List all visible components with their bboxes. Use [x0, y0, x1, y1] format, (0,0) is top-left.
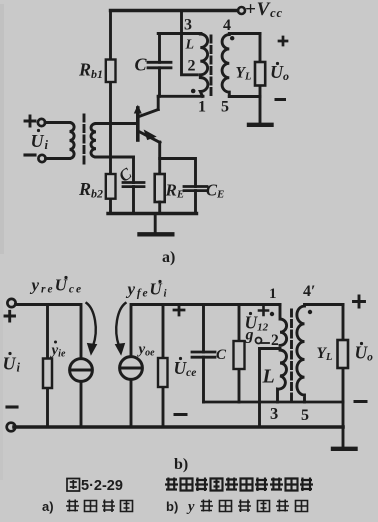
wire input bottom [46, 157, 70, 160]
inductor b-secondary [297, 306, 305, 402]
ground a-right [249, 123, 272, 127]
terminal b input bottom [7, 423, 16, 432]
capacitor CE [184, 187, 207, 191]
node U12 + [259, 306, 268, 315]
resistor Rb2 [106, 174, 116, 199]
node +Vcc label [245, 0, 283, 20]
inductor L b-primary lower [278, 350, 287, 402]
svg-text:5: 5 [221, 99, 229, 116]
load YL [255, 62, 265, 86]
node b input - [7, 405, 17, 408]
node 4 label [223, 17, 231, 34]
caption line1 [81, 478, 123, 494]
core b transformer [290, 310, 293, 400]
node input + [25, 116, 35, 126]
node b output + [354, 296, 365, 307]
source y_re U_ce [70, 359, 93, 382]
admittance y_ie branch [46, 305, 49, 428]
node 3 label [270, 404, 278, 423]
wire to ground a-right [259, 97, 262, 124]
node 5 label [301, 407, 309, 424]
node b) label [174, 456, 188, 473]
node Uo label [270, 62, 289, 83]
wire emitter [158, 142, 161, 174]
admittance y_oe branch [162, 305, 165, 428]
ground a-main [154, 214, 157, 233]
junction polarity dot b-primary [270, 312, 274, 316]
transistor Q1 [136, 108, 140, 140]
wire Vcc rail [111, 9, 238, 12]
node 1 label [269, 286, 277, 302]
node b output - [355, 400, 366, 403]
wire base [96, 122, 136, 125]
wire output loop right [259, 34, 262, 97]
wire to ground b [342, 402, 345, 447]
node input - [25, 153, 35, 156]
svg-text:2: 2 [271, 332, 279, 349]
node output + [279, 37, 287, 45]
node Ui label [31, 129, 49, 152]
wire collector [157, 96, 160, 109]
inductor L tank [200, 34, 208, 96]
node output - [276, 98, 285, 101]
wire secondary bottom [96, 156, 134, 159]
svg-text:5: 5 [301, 407, 309, 424]
svg-text:2: 2 [188, 58, 196, 75]
resistor RE [155, 174, 165, 202]
svg-text:1: 1 [269, 286, 277, 302]
svg-text:3: 3 [270, 404, 278, 423]
svg-text:y: y [186, 499, 195, 515]
node 2 label [271, 332, 279, 349]
wire b top rail left section [16, 305, 82, 359]
arrow source right [116, 303, 125, 346]
wire tank bottom / collector node [158, 95, 203, 98]
wire RE bottom [158, 202, 161, 214]
svg-text:b): b) [166, 499, 178, 514]
svg-text:5·2-29: 5·2-29 [81, 478, 123, 494]
wire tap 2 to Vcc [182, 11, 198, 75]
node Uce + [174, 305, 184, 315]
svg-text:4: 4 [223, 17, 231, 34]
svg-text:a): a) [42, 499, 54, 514]
core output transformer [210, 36, 213, 99]
terminal b input top [7, 299, 15, 307]
wire b bottom rail [14, 425, 343, 429]
wire b top rail right section [131, 305, 280, 356]
capacitor C tank branch [158, 34, 161, 97]
wire b output top [305, 303, 344, 306]
wire b sub-rail node3 [204, 401, 344, 404]
inductor output secondary [222, 35, 229, 97]
label y_re U_ce [30, 276, 84, 296]
conductance g_o branch [238, 305, 241, 403]
inductor input secondary [91, 124, 96, 158]
wire bottom rail a [108, 212, 197, 215]
terminal +Vcc [238, 7, 245, 14]
junction polarity dot primary [191, 89, 196, 94]
terminal input top [38, 119, 45, 126]
inductor L b-primary upper [280, 305, 287, 346]
node a) label [162, 249, 175, 266]
caption line2 [42, 499, 54, 514]
svg-text:C: C [135, 55, 148, 75]
wire output loop top [229, 32, 260, 35]
node b input + [5, 311, 15, 321]
node 1 label [198, 99, 206, 116]
svg-text:1: 1 [198, 99, 206, 116]
source y_fe U_i [120, 357, 143, 380]
svg-text:L: L [185, 38, 195, 53]
wire tank top [158, 32, 201, 35]
inductor input primary [70, 123, 75, 159]
node U12 label [245, 312, 269, 334]
svg-text:a): a) [162, 249, 175, 266]
core input transformer [83, 115, 86, 165]
junction polarity dot b-secondary [308, 310, 312, 314]
wire tap b [260, 347, 281, 350]
node Uce label [174, 357, 197, 379]
node b Ui label [3, 352, 21, 375]
wire emitter to CE [160, 159, 196, 187]
wire input top [45, 121, 70, 124]
arrow feedback left [87, 303, 96, 346]
wire Rb1/Rb2 divider vertical [109, 11, 112, 214]
node 2 label [188, 58, 196, 75]
load YL b [342, 305, 345, 403]
node 3 label [184, 17, 192, 34]
node 4' label [303, 283, 316, 300]
label y_fe U_i [126, 280, 169, 300]
junction polarity dot secondary [230, 36, 234, 40]
ground b [333, 447, 356, 451]
resistor Rb1 [106, 60, 116, 83]
svg-text:3: 3 [184, 17, 192, 34]
wire output loop bottom [229, 95, 260, 98]
terminal input bottom [38, 155, 45, 162]
svg-text:4′: 4′ [303, 283, 316, 300]
capacitor C bypass [132, 157, 135, 214]
svg-text:L: L [262, 366, 275, 388]
capacitor C b-tank [202, 305, 205, 403]
node b Uo label [355, 342, 374, 364]
node Uce - [175, 413, 186, 416]
svg-text:b): b) [174, 456, 188, 473]
svg-text:C: C [216, 347, 227, 363]
node 5 label [221, 99, 229, 116]
